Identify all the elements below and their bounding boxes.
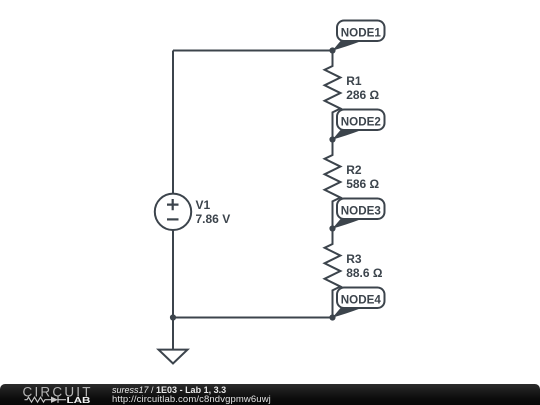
svg-text:7.86 V: 7.86 V <box>196 212 231 226</box>
svg-text:R1: R1 <box>346 74 362 88</box>
svg-text:NODE4: NODE4 <box>341 294 382 306</box>
svg-text:V1: V1 <box>196 198 211 212</box>
svg-text:586 Ω: 586 Ω <box>346 177 379 191</box>
svg-text:88.6 Ω: 88.6 Ω <box>346 266 383 280</box>
svg-text:NODE1: NODE1 <box>341 27 382 39</box>
svg-text:NODE3: NODE3 <box>341 205 381 217</box>
svg-text:286 Ω: 286 Ω <box>346 88 379 102</box>
svg-text:NODE2: NODE2 <box>341 116 381 128</box>
svg-text:LAB: LAB <box>67 396 91 405</box>
svg-text:R3: R3 <box>346 252 362 266</box>
svg-text:R2: R2 <box>346 163 362 177</box>
